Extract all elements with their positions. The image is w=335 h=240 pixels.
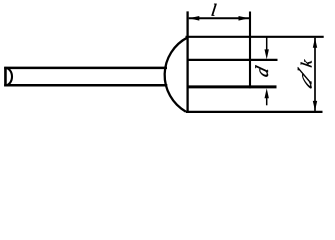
mandrel tip dome arc: [5, 68, 12, 85]
mandrel stem top line: [4, 67, 167, 70]
arrow d bottom (pointing up): [265, 88, 269, 98]
d dimension bottom arrow tail: [266, 98, 268, 105]
rivet head dome arc: [165, 37, 188, 111]
rivet body end vertical (also l-dim right extension): [249, 12, 251, 89]
arrow l right: [239, 16, 250, 21]
rivet body bottom line (extends right as d-dim extension): [187, 85, 277, 88]
rivet body top line (extends right as d-dim extension): [187, 59, 278, 61]
label d (rotated): [255, 65, 268, 76]
label l: [212, 4, 217, 16]
mandrel stem bottom line: [4, 84, 167, 87]
arrow d_k bottom (pointing down): [313, 101, 317, 111]
d_k top extension line: [186, 36, 324, 38]
arrow l left: [189, 16, 200, 21]
d_k dimension line: [314, 38, 316, 111]
dimension line l: [189, 17, 249, 19]
arrow d top (pointing down): [265, 49, 269, 59]
d_k bottom extension line: [186, 111, 323, 113]
mandrel tip flat end: [4, 67, 7, 87]
rivet head flange vertical (also l-dim left extension): [186, 11, 188, 111]
arrow d_k top (pointing up): [313, 38, 317, 48]
label d_k (rotated): [298, 67, 312, 88]
d dimension top arrow tail: [266, 37, 268, 50]
